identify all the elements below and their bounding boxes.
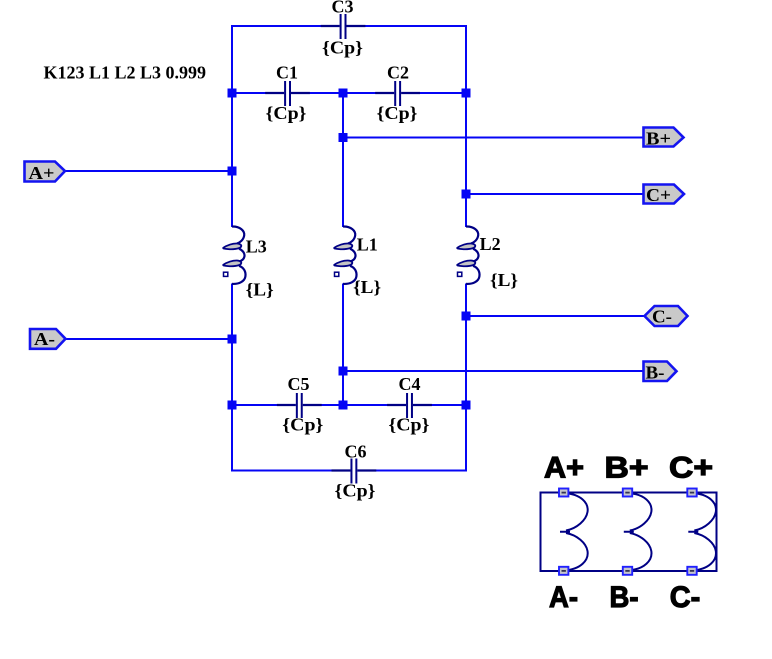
symbol icon box: [541, 493, 717, 572]
wire C- lead: [466, 315, 645, 317]
svg-text:A-: A-: [549, 581, 578, 614]
svg-text:B-: B-: [646, 363, 665, 383]
wire right vertical lower: [465, 284, 467, 472]
wire left vertical upper: [231, 25, 233, 227]
svg-text:C2: C2: [387, 63, 409, 83]
svg-text:A+: A+: [29, 163, 55, 183]
inductor L1: [334, 226, 381, 297]
svg-text:B+: B+: [605, 452, 649, 485]
wire rail 2: [232, 92, 466, 94]
port flag C-: [645, 306, 688, 327]
svg-text:C3: C3: [332, 0, 354, 17]
node junction C+: [462, 190, 471, 199]
node junction rail3 right: [462, 401, 471, 410]
capacitor C3: [321, 0, 366, 58]
svg-text:C1: C1: [276, 63, 298, 83]
svg-text:B+: B+: [646, 129, 671, 149]
wire B+ lead: [343, 137, 644, 139]
wire left vertical lower: [231, 284, 233, 472]
capacitor C6: [332, 442, 377, 501]
node junction A+: [228, 167, 237, 176]
svg-text:K123 L1 L2 L3 0.999: K123 L1 L2 L3 0.999: [44, 63, 207, 83]
node junction C-: [462, 312, 471, 321]
inductor L2: [457, 226, 518, 290]
svg-text:{Cp}: {Cp}: [335, 481, 376, 501]
svg-text:{L}: {L}: [353, 277, 381, 297]
icon pin A-: [559, 567, 568, 575]
svg-text:{L}: {L}: [490, 270, 518, 290]
wire middle vertical upper: [342, 93, 344, 227]
icon coil B: [624, 493, 652, 571]
node junction rail3 middle: [339, 401, 348, 410]
svg-text:C+: C+: [646, 185, 671, 205]
icon pin C-: [687, 567, 696, 575]
icon pin A+: [559, 489, 568, 497]
wire C+ lead: [466, 193, 644, 195]
svg-text:C4: C4: [399, 374, 421, 394]
icon coil C: [688, 493, 716, 571]
port flag C+: [644, 185, 685, 206]
node junction B+: [339, 133, 348, 142]
capacitor C2: [375, 63, 420, 124]
svg-text:{Cp}: {Cp}: [388, 415, 429, 435]
wire bottom rail: [232, 470, 466, 472]
svg-text:L1: L1: [357, 235, 378, 255]
svg-text:C6: C6: [345, 442, 367, 462]
svg-text:{Cp}: {Cp}: [377, 103, 418, 123]
svg-text:C-: C-: [652, 307, 672, 327]
icon pin B+: [623, 489, 632, 497]
wire A+ lead: [64, 170, 232, 172]
node junction rail2 right: [462, 89, 471, 98]
node junction rail3 left: [228, 401, 237, 410]
node junction rail2 middle: [339, 89, 348, 98]
wire middle vertical lower: [342, 284, 344, 406]
port flag B+: [644, 128, 684, 149]
wire right vertical upper: [465, 25, 467, 227]
capacitor C4: [387, 374, 432, 435]
port flag B-: [644, 362, 677, 383]
capacitor C5: [277, 374, 323, 435]
svg-text:C5: C5: [288, 374, 310, 394]
icon pin B-: [623, 567, 632, 575]
svg-text:{Cp}: {Cp}: [282, 415, 323, 435]
svg-text:C+: C+: [669, 452, 713, 485]
port flag A+: [25, 162, 66, 184]
svg-text:L3: L3: [246, 237, 267, 257]
svg-text:{Cp}: {Cp}: [322, 38, 363, 58]
node junction rail2 left: [228, 89, 237, 98]
capacitor C1: [265, 63, 310, 124]
svg-text:A+: A+: [544, 452, 584, 485]
node junction A-: [228, 335, 237, 344]
inductor L3: [223, 226, 274, 299]
wire A- lead: [64, 338, 232, 340]
svg-text:A-: A-: [34, 329, 55, 349]
wire B- lead: [343, 370, 644, 372]
node junction B-: [339, 367, 348, 376]
wire top rail: [232, 25, 466, 27]
svg-text:C-: C-: [670, 581, 701, 614]
port flag A-: [30, 329, 66, 349]
icon coil A: [560, 493, 588, 571]
wire rail 3: [232, 404, 466, 406]
icon pin C+: [687, 489, 696, 497]
svg-text:{Cp}: {Cp}: [266, 103, 307, 123]
svg-text:{L}: {L}: [246, 280, 274, 300]
svg-text:B-: B-: [610, 581, 639, 614]
svg-text:L2: L2: [480, 234, 501, 254]
